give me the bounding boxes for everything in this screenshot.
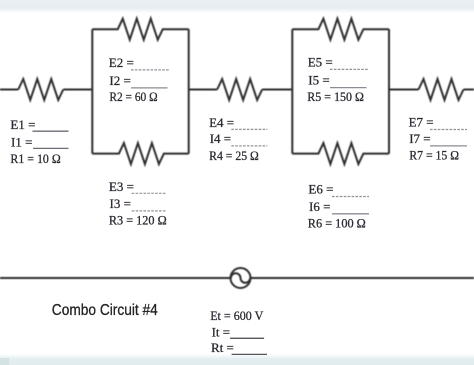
wire R4 to box2 [262, 89, 292, 91]
svg-text:R4 = 25 Ω: R4 = 25 Ω [209, 148, 259, 163]
wire box2 to R7 [389, 89, 419, 91]
top scan band [0, 0, 474, 13]
AC source V1 circle [231, 268, 251, 288]
resistor R6 (bottom edge of box 2) [292, 143, 389, 164]
svg-text:E1 =: E1 = [10, 117, 35, 132]
wire R7 to right edge [464, 89, 474, 91]
svg-text:Rt =: Rt = [211, 340, 234, 355]
svg-text:R7 = 15 Ω: R7 = 15 Ω [409, 148, 459, 163]
label block E7/I7/R7 value 15 ohm [409, 114, 467, 162]
parallel box 2 left side [291, 29, 293, 153]
svg-text:E4 =: E4 = [209, 115, 234, 130]
label block E6/I6/R6 value 100 ohm [308, 182, 369, 231]
svg-text:I3 =: I3 = [110, 196, 131, 211]
resistor R1 [18, 79, 63, 100]
parallel box 2 right side [388, 29, 390, 153]
svg-text:I7 =: I7 = [409, 131, 430, 146]
wire box1 to R4 [189, 89, 217, 91]
svg-text:R5 = 150 Ω: R5 = 150 Ω [307, 89, 364, 104]
bottom wire left of source [0, 277, 231, 279]
svg-text:R2 = 60 Ω: R2 = 60 Ω [109, 89, 157, 104]
label block E5/I5/R5 value 150 ohm [307, 54, 368, 104]
parallel box 1 right side [188, 29, 190, 153]
svg-text:I1 =: I1 = [11, 134, 32, 149]
wire left segment [0, 89, 18, 91]
parallel box 1 left side [91, 29, 93, 153]
resistor R4 [217, 79, 262, 100]
bottom-left corner scan mark [0, 358, 9, 365]
resistor R3 (bottom edge of box 1) [92, 143, 188, 164]
svg-text:E3 =: E3 = [109, 179, 134, 194]
svg-text:R3 = 120 Ω: R3 = 120 Ω [109, 213, 167, 228]
label block E1/I1/R1 [10, 117, 68, 166]
label block E4/I4/R4 value 25 ohm [209, 115, 267, 163]
bottom wire right of source [251, 277, 474, 279]
svg-text:E5 =: E5 = [308, 54, 333, 69]
svg-text:I6 =: I6 = [309, 199, 330, 214]
svg-text:I5 =: I5 = [308, 73, 329, 88]
svg-text:R1 = 10 Ω: R1 = 10 Ω [10, 151, 60, 166]
svg-text:Combo Circuit #4: Combo Circuit #4 [52, 302, 158, 319]
svg-text:I4 =: I4 = [210, 131, 231, 146]
svg-text:I2 =: I2 = [109, 73, 130, 88]
resistor R7 [419, 79, 464, 100]
wire R1 to box1 [63, 89, 92, 91]
label block E2/I2/R2 value 60 ohm [109, 55, 170, 104]
resistor R2 (top edge of box 1) [92, 19, 188, 40]
bottom scan band [0, 354, 474, 365]
svg-text:R6 = 100 Ω: R6 = 100 Ω [308, 216, 366, 231]
label block Et/It/Rt source values [210, 308, 267, 355]
svg-text:E6 =: E6 = [308, 182, 333, 197]
svg-text:It =: It = [212, 324, 231, 339]
svg-text:Et = 600 V: Et = 600 V [210, 308, 264, 323]
AC source sine wave [231, 273, 250, 283]
label block E3/I3/R3 value 120 ohm [109, 179, 167, 228]
svg-text:E2 =: E2 = [109, 55, 134, 70]
resistor R5 (top edge of box 2) [292, 19, 389, 40]
svg-text:E7 =: E7 = [409, 114, 434, 129]
